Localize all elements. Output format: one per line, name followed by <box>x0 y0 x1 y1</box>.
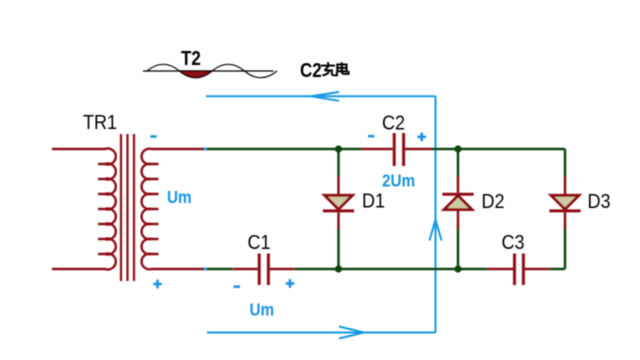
TR1 secondary winding <box>142 149 204 270</box>
wire D2 top stub <box>457 149 460 178</box>
arrow up (right vertical, current direction) <box>430 220 442 241</box>
arrow left (top, current direction) <box>311 92 339 101</box>
svg-text:TR1: TR1 <box>83 112 117 134</box>
C3 left plate <box>513 254 516 286</box>
wire blue right vertical segment <box>435 96 437 332</box>
arrow right (bottom, current direction) <box>339 327 364 339</box>
wire top: C2 right lead to top-right corner <box>432 148 566 151</box>
C2 right plate <box>402 133 405 166</box>
green circuit wires <box>204 149 565 269</box>
svg-text:2Um: 2Um <box>382 170 415 190</box>
TR1 primary winding <box>52 149 116 270</box>
D1 bottom lead <box>337 212 340 229</box>
wire bottom: pin TR1 sec to C1 left lead <box>204 268 233 271</box>
hanzi 充 stroke: top horizontal <box>321 65 335 67</box>
polarity plus (secondary bottom) <box>153 280 162 289</box>
svg-text:Um: Um <box>167 187 192 207</box>
hanzi 电 stroke: box <box>337 65 346 72</box>
capacitor C1 <box>233 254 294 286</box>
capacitor C2 <box>362 133 432 166</box>
C2 right lead <box>405 148 432 151</box>
D2 cathode bar <box>442 193 473 196</box>
D1 top lead <box>337 177 340 195</box>
D2 top lead <box>457 177 460 193</box>
D1 triangle <box>325 195 353 209</box>
C2 left lead <box>362 148 393 151</box>
svg-text:D2: D2 <box>482 191 505 213</box>
svg-text:Um: Um <box>250 299 275 319</box>
hanzi 电 stroke: center vertical with bottom hook <box>342 62 349 74</box>
wire D2 bottom stub <box>457 228 460 269</box>
sine filled half-wave (dark red) <box>180 71 213 78</box>
sine wave source icon T2 <box>143 64 277 77</box>
wire bottom: C1 right lead to C3 left lead <box>294 268 488 271</box>
TR1 core line 3 <box>133 134 135 281</box>
wire D3 bottom stub <box>564 228 567 269</box>
pin connection dot bottom (cyan) <box>203 268 208 271</box>
annotation current loop (blue) <box>206 92 442 339</box>
diode D2 <box>442 177 473 230</box>
C3 right plate <box>522 254 525 286</box>
TR1 core line 1 <box>120 134 122 281</box>
node D bottom-right junction dot <box>454 265 461 272</box>
svg-text:C3: C3 <box>502 232 525 254</box>
hanzi 充 stroke: top dot <box>328 62 329 65</box>
C1 left plate <box>258 254 261 286</box>
wire D1 top stub <box>337 149 340 178</box>
svg-text:C2: C2 <box>300 59 322 82</box>
polarity minus (C2 left) <box>368 135 374 138</box>
wire D1 bottom stub <box>337 228 340 269</box>
C2 left plate <box>393 133 396 166</box>
node B top-right junction dot <box>454 145 461 152</box>
hanzi 充 stroke: right leg with hook <box>332 71 337 76</box>
sine axis line <box>143 70 274 72</box>
C3 left lead <box>488 268 513 271</box>
pin connection dot top (cyan) <box>203 148 208 151</box>
svg-text:C2: C2 <box>382 113 405 135</box>
polarity minus (C1 left) <box>234 285 240 288</box>
D3 triangle <box>551 195 579 209</box>
D3 cathode bar <box>549 209 580 212</box>
polarity plus (C2 right) <box>417 133 426 142</box>
node C bottom-left junction dot <box>335 265 342 272</box>
wire D3 top stub <box>564 149 567 178</box>
C1 right lead <box>270 268 294 271</box>
node A top-left junction dot <box>335 145 342 152</box>
svg-text:D1: D1 <box>362 191 385 213</box>
capacitor C3 <box>488 254 549 286</box>
D3 bottom lead <box>564 212 567 229</box>
wire top: pin TR1 sec to C2 left lead <box>204 148 362 151</box>
hanzi 充 stroke: middle slant <box>325 66 329 70</box>
sine curve outline <box>147 64 277 77</box>
D1 cathode bar <box>323 209 354 212</box>
TR1 core line 2 <box>126 134 128 281</box>
diode D1 <box>323 177 354 230</box>
hanzi 充 stroke: left leg <box>322 71 328 76</box>
svg-text:D3: D3 <box>588 191 611 213</box>
transformer TR1 <box>52 134 204 281</box>
polarity minus (secondary top) <box>150 135 156 138</box>
D3 top lead <box>564 177 567 195</box>
svg-text:T2: T2 <box>181 47 201 70</box>
polarity plus (C1 right) <box>286 279 295 288</box>
wire blue bottom segment <box>207 332 436 334</box>
diode D3 <box>549 177 580 230</box>
C1 right plate <box>267 254 270 286</box>
wire bottom: C3 right lead to bottom-right corner <box>549 268 565 271</box>
wire blue top segment <box>206 95 436 97</box>
D2 triangle <box>444 196 472 210</box>
hanzi 充 stroke: middle base <box>324 69 333 71</box>
C1 left lead <box>233 268 258 271</box>
D2 bottom lead <box>457 211 460 229</box>
hanzi 电 stroke: box midline <box>337 67 346 69</box>
C3 right lead <box>525 268 549 271</box>
svg-text:C1: C1 <box>248 232 271 254</box>
